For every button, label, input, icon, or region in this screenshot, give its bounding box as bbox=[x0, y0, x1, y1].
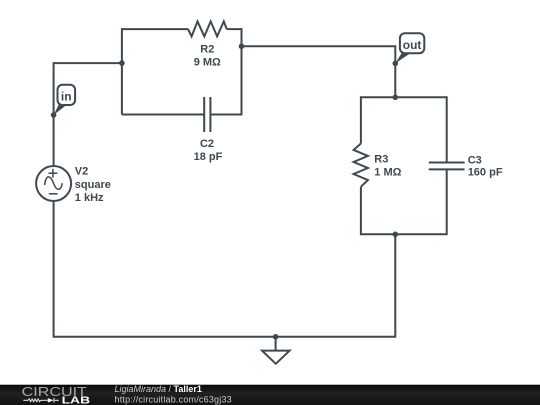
svg-text:160 pF: 160 pF bbox=[468, 167, 503, 179]
svg-text:square: square bbox=[75, 179, 111, 191]
svg-text:C3: C3 bbox=[468, 154, 482, 166]
svg-text:18 pF: 18 pF bbox=[194, 151, 223, 163]
svg-text:LigiaMiranda / Taller1: LigiaMiranda / Taller1 bbox=[115, 384, 202, 394]
svg-text:1 MΩ: 1 MΩ bbox=[374, 167, 401, 179]
svg-text:in: in bbox=[61, 90, 72, 104]
svg-text:R3: R3 bbox=[374, 154, 388, 166]
svg-text:http://circuitlab.com/c63gj33: http://circuitlab.com/c63gj33 bbox=[115, 394, 232, 404]
svg-text:C2: C2 bbox=[200, 138, 214, 150]
svg-text:out: out bbox=[403, 38, 422, 52]
svg-text:1 kHz: 1 kHz bbox=[75, 192, 104, 204]
svg-text:R2: R2 bbox=[200, 43, 214, 55]
svg-text:V2: V2 bbox=[75, 166, 88, 178]
svg-text:LAB: LAB bbox=[62, 395, 91, 405]
svg-text:9 MΩ: 9 MΩ bbox=[194, 57, 221, 69]
